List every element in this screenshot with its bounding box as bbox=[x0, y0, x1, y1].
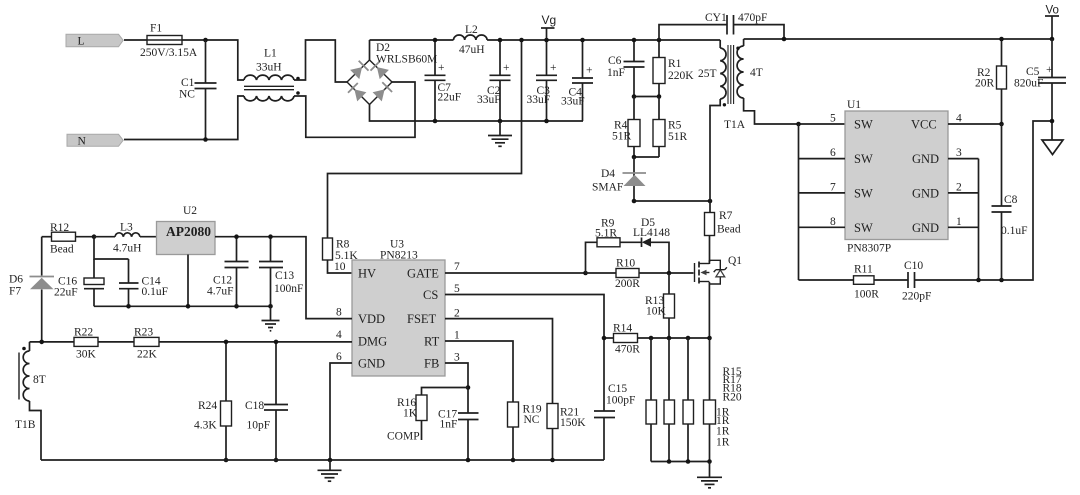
svg-text:R8: R8 bbox=[336, 239, 350, 251]
capacitor C17 bbox=[438, 409, 479, 461]
node R4/R5 bottom junction bbox=[632, 155, 637, 160]
wire bridge bottom to negative rail bbox=[370, 105, 584, 122]
node R15 top junction bbox=[649, 336, 654, 341]
svg-text:Vg: Vg bbox=[542, 13, 557, 27]
svg-text:10pF: 10pF bbox=[247, 420, 271, 432]
node VCC junction bbox=[999, 122, 1004, 127]
resistor R18 bbox=[683, 338, 694, 462]
svg-text:1nF: 1nF bbox=[440, 419, 458, 431]
wire T1A primary bottom bbox=[710, 99, 720, 201]
svg-text:8T: 8T bbox=[33, 374, 46, 386]
svg-text:+: + bbox=[550, 62, 557, 74]
inductor L3 bbox=[94, 222, 157, 255]
svg-text:33uH: 33uH bbox=[256, 62, 282, 74]
svg-text:470pF: 470pF bbox=[738, 12, 767, 24]
ground main bus bbox=[488, 121, 512, 146]
svg-text:L: L bbox=[78, 35, 85, 47]
wire GND bus bbox=[978, 159, 980, 280]
wire CS pin5 bbox=[445, 295, 604, 339]
svg-text:RT: RT bbox=[424, 335, 440, 349]
wire GND pin3 bbox=[948, 158, 979, 160]
svg-text:30K: 30K bbox=[76, 349, 97, 361]
node C6/R4 junction bbox=[632, 94, 637, 99]
svg-text:L3: L3 bbox=[120, 222, 133, 234]
svg-text:7: 7 bbox=[454, 261, 460, 273]
svg-text:33uF: 33uF bbox=[527, 94, 551, 106]
ground U2 rail bbox=[262, 306, 280, 331]
node L-C1 junction bbox=[203, 38, 208, 43]
node C18 bottom junction bbox=[274, 458, 279, 463]
wire FB pin3 bbox=[445, 363, 468, 413]
svg-text:FSET: FSET bbox=[407, 312, 437, 326]
node C13 top junction bbox=[268, 234, 273, 239]
diode D5 bbox=[633, 217, 670, 273]
svg-text:N: N bbox=[78, 135, 87, 147]
node C7 top junction bbox=[433, 38, 438, 43]
node Vo junction bbox=[1050, 37, 1055, 42]
wire FSET pin2 bbox=[445, 319, 553, 404]
resistor R16 bbox=[387, 388, 468, 443]
svg-text:1K: 1K bbox=[403, 408, 418, 420]
svg-text:+: + bbox=[586, 65, 593, 77]
ground output triangle bbox=[1042, 140, 1063, 155]
svg-text:PN8213: PN8213 bbox=[380, 250, 418, 262]
node C17 bottom junction bbox=[466, 458, 471, 463]
capacitor C3 bbox=[527, 40, 558, 121]
svg-text:R1: R1 bbox=[668, 58, 682, 70]
svg-text:5.1R: 5.1R bbox=[595, 228, 617, 240]
capacitor C8 bbox=[992, 124, 1028, 280]
svg-text:4T: 4T bbox=[750, 67, 763, 79]
capacitor CY1 bbox=[659, 12, 784, 40]
svg-text:LL4148: LL4148 bbox=[633, 227, 670, 239]
labels R15 R17 R18 R20 bbox=[716, 366, 742, 448]
capacitor C6 bbox=[607, 40, 645, 97]
wire U2 sub ground rail bbox=[94, 305, 271, 307]
svg-text:100pF: 100pF bbox=[606, 395, 635, 407]
node R18 bottom junction bbox=[686, 459, 691, 464]
svg-text:SMAF: SMAF bbox=[592, 182, 623, 194]
svg-text:R10: R10 bbox=[616, 258, 635, 270]
node R24 bottom junction bbox=[224, 458, 229, 463]
svg-text:GND: GND bbox=[912, 187, 939, 201]
svg-text:6: 6 bbox=[336, 351, 342, 363]
node C5 negative junction bbox=[1050, 119, 1055, 124]
svg-text:CS: CS bbox=[423, 288, 438, 302]
svg-text:10: 10 bbox=[334, 261, 346, 273]
svg-text:220pF: 220pF bbox=[902, 291, 931, 303]
resistor R13 bbox=[645, 273, 675, 338]
wire SW pin6 bbox=[799, 158, 846, 160]
node primary switch junction bbox=[708, 199, 713, 204]
svg-text:D6: D6 bbox=[9, 274, 23, 286]
wire L1 bottom to bridge right vertex bbox=[294, 82, 415, 137]
resistor R2 bbox=[975, 39, 1007, 124]
fuse F1 bbox=[140, 23, 198, 60]
node C8 bottom junction bbox=[999, 278, 1004, 283]
wire RT pin1 bbox=[445, 341, 513, 402]
svg-text:HV: HV bbox=[358, 267, 376, 281]
svg-text:47uH: 47uH bbox=[459, 44, 485, 56]
svg-text:L2: L2 bbox=[465, 24, 478, 36]
resistor R8 bbox=[323, 238, 359, 273]
svg-text:D2: D2 bbox=[376, 42, 390, 54]
node R18 top junction bbox=[686, 336, 691, 341]
node GATE branch junction bbox=[583, 271, 588, 276]
capacitor C14 bbox=[119, 259, 168, 306]
svg-text:2: 2 bbox=[454, 308, 460, 320]
svg-text:GND: GND bbox=[912, 152, 939, 166]
svg-text:1nF: 1nF bbox=[607, 67, 625, 79]
svg-text:4.3K: 4.3K bbox=[194, 420, 217, 432]
wire SW pin7 bbox=[799, 192, 846, 194]
diode D6 bbox=[9, 237, 54, 342]
svg-text:GATE: GATE bbox=[407, 267, 439, 281]
svg-text:COMP: COMP bbox=[387, 431, 420, 443]
node R24 top junction bbox=[224, 340, 229, 345]
svg-text:AP2080: AP2080 bbox=[166, 224, 211, 239]
wire R4/R5 bottom junction bbox=[634, 156, 659, 158]
resistor R19 bbox=[508, 402, 542, 460]
node R20 top junction bbox=[707, 336, 712, 341]
svg-text:GND: GND bbox=[912, 221, 939, 235]
svg-text:51R: 51R bbox=[612, 131, 632, 143]
resistor R12 bbox=[42, 222, 94, 256]
svg-text:22uF: 22uF bbox=[438, 92, 462, 104]
svg-text:GND: GND bbox=[358, 357, 385, 371]
svg-text:+: + bbox=[438, 62, 445, 74]
svg-text:Bead: Bead bbox=[50, 244, 74, 256]
svg-text:4.7uH: 4.7uH bbox=[113, 243, 141, 255]
node C14 bottom junction bbox=[126, 304, 131, 309]
svg-text:R22: R22 bbox=[74, 327, 93, 339]
svg-text:22uF: 22uF bbox=[54, 287, 78, 299]
svg-text:CY1: CY1 bbox=[705, 12, 727, 24]
wire DMG rail bbox=[30, 341, 353, 343]
wire L input bbox=[124, 40, 244, 80]
svg-text:DMG: DMG bbox=[358, 335, 387, 349]
wire D4 to primary bottom node bbox=[634, 200, 710, 202]
svg-text:C13: C13 bbox=[275, 270, 294, 282]
svg-text:FB: FB bbox=[424, 357, 439, 371]
svg-text:U2: U2 bbox=[183, 205, 197, 217]
resistor R4 bbox=[612, 97, 640, 158]
svg-text:820uF: 820uF bbox=[1014, 78, 1043, 90]
svg-text:NC: NC bbox=[524, 414, 540, 426]
capacitor C10 bbox=[902, 260, 931, 303]
svg-text:2: 2 bbox=[956, 182, 962, 194]
wire HV feed from rail bbox=[328, 40, 522, 238]
node U2 gnd junction bbox=[186, 304, 191, 309]
svg-text:10K: 10K bbox=[646, 306, 667, 318]
node C12 bottom junction bbox=[234, 304, 239, 309]
svg-text:U1: U1 bbox=[847, 99, 861, 111]
node gate drive junction bbox=[667, 271, 672, 276]
wire R1/C6 bottom junction bbox=[634, 96, 659, 98]
node R17 bottom junction bbox=[667, 459, 672, 464]
svg-text:F7: F7 bbox=[9, 286, 21, 298]
node R19 bottom junction bbox=[511, 458, 516, 463]
svg-text:4.7uF: 4.7uF bbox=[207, 286, 234, 298]
svg-text:1: 1 bbox=[454, 330, 460, 342]
node C18 top junction bbox=[274, 340, 279, 345]
svg-text:+: + bbox=[1046, 64, 1053, 76]
svg-text:25T: 25T bbox=[698, 68, 717, 80]
capacitor C2 bbox=[477, 40, 511, 121]
resistor R21 bbox=[547, 404, 586, 461]
svg-text:R11: R11 bbox=[854, 264, 873, 276]
wire secondary top rail bbox=[744, 38, 1052, 40]
wire U1 bottom loop bbox=[799, 121, 1053, 280]
resistor R10 bbox=[586, 258, 694, 291]
node CS/R14 junction bbox=[602, 336, 607, 341]
capacitor C4 bbox=[561, 40, 593, 121]
op-amp U2 AP2080 bbox=[157, 205, 216, 255]
capacitor C16 bbox=[54, 259, 104, 306]
svg-text:220K: 220K bbox=[668, 70, 694, 82]
svg-text:0.1uF: 0.1uF bbox=[1001, 225, 1028, 237]
svg-text:PN8307P: PN8307P bbox=[847, 243, 891, 255]
svg-text:8: 8 bbox=[830, 216, 836, 228]
svg-text:R5: R5 bbox=[668, 120, 682, 132]
node R2 top junction bbox=[999, 37, 1004, 42]
svg-text:R7: R7 bbox=[719, 210, 733, 222]
svg-text:470R: 470R bbox=[615, 344, 640, 356]
svg-text:4: 4 bbox=[956, 113, 962, 125]
svg-text:150K: 150K bbox=[560, 417, 586, 429]
svg-text:T1B: T1B bbox=[15, 419, 36, 431]
svg-text:C1: C1 bbox=[181, 77, 195, 89]
wire SW bus bbox=[798, 124, 800, 280]
svg-text:VCC: VCC bbox=[911, 118, 937, 132]
resistor R5 bbox=[653, 97, 688, 158]
power node Vg bbox=[541, 13, 556, 40]
transformer T1A bbox=[698, 39, 763, 131]
diode D4 bbox=[592, 157, 646, 201]
svg-text:5: 5 bbox=[830, 113, 836, 125]
wire C16/C14 branch bbox=[94, 237, 129, 259]
wire L1 top to bridge left vertex bbox=[294, 40, 347, 82]
node C7 bottom junction bbox=[433, 119, 438, 124]
node R20 bottom junction bbox=[707, 459, 712, 464]
svg-text:R14: R14 bbox=[613, 323, 632, 335]
node GND bus bottom junction bbox=[976, 278, 981, 283]
capacitor C15 bbox=[594, 338, 635, 460]
node C12 top junction bbox=[234, 234, 239, 239]
svg-text:100R: 100R bbox=[854, 288, 879, 300]
resistor R11 bbox=[854, 264, 880, 301]
node C2 bottom junction bbox=[498, 119, 503, 124]
node R1/R5 junction bbox=[657, 94, 662, 99]
svg-text:1: 1 bbox=[956, 216, 962, 228]
svg-text:1R: 1R bbox=[716, 436, 730, 448]
resistor R7 bbox=[705, 201, 741, 262]
resistor R20 bbox=[704, 338, 716, 462]
svg-text:VDD: VDD bbox=[358, 312, 385, 326]
svg-text:WRLSB60M: WRLSB60M bbox=[376, 54, 437, 66]
svg-text:33uF: 33uF bbox=[477, 94, 501, 106]
svg-text:C5: C5 bbox=[1026, 66, 1040, 78]
node C2 top junction bbox=[498, 38, 503, 43]
resistor R14 bbox=[613, 323, 640, 356]
inductor L2 bbox=[454, 24, 488, 56]
capacitor C7 bbox=[425, 40, 462, 121]
node C6 top junction bbox=[632, 38, 637, 43]
node N-C1 junction bbox=[203, 137, 208, 142]
wire bridge top to main rail bbox=[369, 40, 371, 60]
svg-text:0.1uF: 0.1uF bbox=[142, 286, 169, 298]
svg-text:3: 3 bbox=[454, 352, 460, 364]
svg-text:F1: F1 bbox=[150, 23, 162, 35]
wire GND pin1 bbox=[948, 226, 979, 228]
wire N input bbox=[124, 96, 244, 140]
node R12-L3 junction bbox=[92, 234, 97, 239]
node R21 bottom junction bbox=[550, 458, 555, 463]
capacitor C12 bbox=[207, 237, 249, 307]
svg-text:100nF: 100nF bbox=[274, 283, 303, 295]
svg-text:5: 5 bbox=[454, 283, 460, 295]
node HV feed junction bbox=[519, 38, 524, 43]
resistor R23 bbox=[134, 327, 159, 361]
wire U2 output bbox=[215, 237, 352, 319]
svg-text:L1: L1 bbox=[264, 48, 277, 60]
wire GND pin2 bbox=[948, 192, 979, 194]
svg-text:C8: C8 bbox=[1004, 194, 1018, 206]
svg-text:20R: 20R bbox=[975, 78, 995, 90]
resistor R1 bbox=[653, 40, 694, 97]
svg-text:Vo: Vo bbox=[1046, 5, 1059, 17]
svg-text:8: 8 bbox=[336, 307, 342, 319]
node C13 bottom junction bbox=[268, 304, 273, 309]
wire VCC pin4 bbox=[948, 123, 1002, 125]
ground main bottom bbox=[318, 460, 342, 481]
node C4 top junction bbox=[580, 38, 585, 43]
capacitor C5 bbox=[1014, 39, 1066, 140]
wire U3 GND pin drop bbox=[330, 363, 352, 460]
svg-text:+: + bbox=[503, 62, 510, 74]
connector N bbox=[67, 134, 123, 147]
resistor R15 bbox=[646, 338, 657, 462]
svg-text:T1A: T1A bbox=[724, 119, 746, 131]
node R17 top junction bbox=[667, 336, 672, 341]
wire U2 gnd pin bbox=[187, 255, 189, 307]
wire main bottom rail bbox=[41, 459, 604, 461]
capacitor C1 bbox=[179, 40, 217, 140]
ground sense rail bbox=[697, 462, 722, 488]
svg-text:4: 4 bbox=[336, 329, 342, 341]
svg-text:C10: C10 bbox=[904, 260, 923, 272]
bridge rectifier D2 bbox=[347, 42, 437, 105]
capacitor C18 bbox=[245, 342, 288, 460]
svg-text:Q1: Q1 bbox=[728, 255, 742, 267]
resistor R9 bbox=[586, 218, 642, 274]
wire main DC rail bbox=[370, 39, 721, 41]
svg-text:SW: SW bbox=[854, 221, 873, 235]
transistor Q1 bbox=[695, 255, 743, 338]
op-amp U3 PN8213 bbox=[352, 239, 445, 377]
connector L bbox=[66, 34, 123, 47]
node Vg/C3 junction bbox=[544, 38, 549, 43]
svg-text:SW: SW bbox=[854, 152, 873, 166]
svg-text:R20: R20 bbox=[723, 392, 742, 404]
node C3 bottom junction bbox=[544, 119, 549, 124]
node CY1/secondary rail junction bbox=[782, 37, 787, 42]
svg-text:Bead: Bead bbox=[717, 224, 741, 236]
svg-text:C18: C18 bbox=[245, 400, 264, 412]
wire sense bottom rail bbox=[651, 461, 710, 463]
inductor L1 common mode choke bbox=[244, 48, 300, 101]
node FB/R16 junction bbox=[466, 385, 471, 390]
node GND pin junction bbox=[328, 458, 333, 463]
wire T1A secondary bottom to SW bbox=[744, 98, 845, 124]
node SW bus junction bbox=[796, 122, 801, 127]
capacitor C13 bbox=[259, 237, 303, 309]
svg-text:NC: NC bbox=[179, 89, 195, 101]
resistor R24 bbox=[194, 342, 232, 460]
svg-text:R12: R12 bbox=[50, 222, 69, 234]
svg-text:SW: SW bbox=[854, 187, 873, 201]
wire SW pin8 bbox=[799, 226, 846, 228]
resistor R22 bbox=[74, 327, 98, 361]
power node Vo bbox=[1045, 5, 1059, 40]
svg-text:6: 6 bbox=[830, 147, 836, 159]
svg-text:3: 3 bbox=[956, 147, 962, 159]
wire GATE pin7 bbox=[445, 272, 586, 274]
svg-text:D4: D4 bbox=[601, 168, 615, 180]
resistor R17 bbox=[664, 338, 675, 462]
svg-text:C6: C6 bbox=[608, 55, 622, 67]
node R1/CY1 junction bbox=[657, 38, 662, 43]
op-amp U1 PN8307P bbox=[845, 99, 948, 255]
svg-text:7: 7 bbox=[830, 182, 836, 194]
svg-text:C15: C15 bbox=[608, 383, 627, 395]
svg-text:R24: R24 bbox=[198, 400, 217, 412]
wire sense node R14 line bbox=[604, 337, 710, 339]
node D4 anode junction bbox=[632, 199, 637, 204]
svg-text:R23: R23 bbox=[134, 327, 153, 339]
transformer T1B winding bbox=[15, 342, 46, 460]
svg-text:51R: 51R bbox=[668, 131, 688, 143]
svg-text:200R: 200R bbox=[615, 278, 640, 290]
svg-text:22K: 22K bbox=[137, 349, 158, 361]
node D6/DMG junction bbox=[39, 340, 44, 345]
svg-text:SW: SW bbox=[854, 118, 873, 132]
svg-text:33uF: 33uF bbox=[561, 96, 585, 108]
svg-text:250V/3.15A: 250V/3.15A bbox=[140, 47, 198, 59]
